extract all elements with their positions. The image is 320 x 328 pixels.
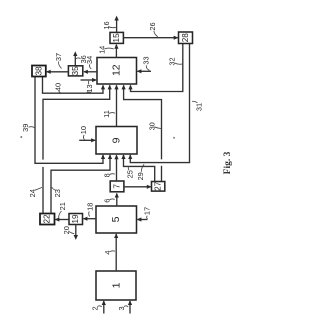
box 38 [32,66,46,77]
svg-text:33: 33 [142,56,151,64]
input stub 17 into box 5 [137,217,148,221]
box 19 [69,214,83,225]
svg-text:37: 37 [54,53,63,61]
svg-text:9: 9 [111,137,123,143]
svg-text:5: 5 [110,216,122,222]
input stub 13 into box 12 [81,78,97,82]
svg-text:1: 1 [110,282,122,288]
stray speck [20,136,22,138]
svg-text:30: 30 [147,122,156,130]
svg-text:19: 19 [71,214,80,224]
box 35 [68,66,82,76]
label 37 [54,53,63,69]
svg-text:14: 14 [97,46,106,54]
svg-text:39: 39 [21,124,30,132]
label 11 [102,110,115,118]
wire 14 from box 12 to box 15 [114,44,118,58]
svg-text:23: 23 [53,189,62,197]
label 34 [85,56,94,69]
label 33 [142,56,151,70]
box 12 [97,58,137,85]
svg-text:10: 10 [79,126,88,134]
wire from box 7 to box 27 [124,185,152,189]
svg-text:25: 25 [125,170,134,178]
label 29 [136,164,145,180]
wire 11 from box 9 to box 12 [114,85,118,127]
wire 21 from box 19 to box 22 [55,217,69,221]
svg-text:3: 3 [117,306,126,310]
label 2 [91,306,102,311]
svg-text:32: 32 [168,57,177,65]
label 14 [97,46,114,54]
svg-text:16: 16 [102,21,111,29]
label 21 [58,202,67,217]
wire 25 from box 9 down to box 27 [121,154,154,181]
svg-text:17: 17 [143,207,152,215]
wire 18 from box 5 to box 19 [83,217,96,221]
label 3 [117,306,128,311]
label 20 [62,226,74,234]
wire 37 from box 35 to box 38 [46,70,68,74]
box 22 [40,214,55,225]
svg-text:7: 7 [112,184,121,189]
wire 4 from box 1 to box 5 [114,233,118,271]
label 10 [79,126,88,140]
label 32 [168,57,183,65]
box 15 [110,32,123,43]
svg-text:35: 35 [71,66,80,76]
label 4 [103,250,115,254]
input stub 10 into box 9 [79,138,96,142]
wire 32 from box 28 down and into box 12 [128,44,182,92]
wire 26 from box 15 to box 28 [123,36,178,40]
label 6 [103,199,115,203]
box 27 [152,181,165,191]
svg-text:12: 12 [111,64,123,76]
wire 40 from box 38 down and into box 12 [43,77,106,94]
label 13 [85,81,94,93]
svg-text:21: 21 [58,202,67,210]
label 23 [52,187,62,197]
label 40 [54,83,63,93]
svg-text:2: 2 [91,306,100,310]
label 30 [147,122,161,130]
box 9 [96,127,137,155]
output stub 20 from box 19 [74,225,78,240]
figure caption Fig. 3 [223,151,233,174]
svg-text:26: 26 [148,22,157,30]
svg-text:11: 11 [102,110,111,118]
output stub 16 from box 15 [114,16,118,33]
svg-text:38: 38 [34,66,43,76]
smudge on wire 40 [86,92,91,94]
label 31 [192,101,203,111]
svg-text:28: 28 [181,33,190,43]
label 26 [148,22,158,36]
wire 23 from box 9 down and to box 22 [51,154,112,213]
label 39 [21,124,35,132]
label 18 [86,203,95,217]
box 28 [179,32,193,44]
wire 29-31 from box 28 down and into box 9 [128,44,189,163]
svg-text:20: 20 [62,226,71,234]
wire 34 from box 35 to box 12 [83,70,97,74]
svg-text:Fig. 3: Fig. 3 [223,151,233,174]
input stub 33 into box 12 [137,69,151,73]
svg-text:31: 31 [194,103,203,111]
label 25 [125,167,134,179]
svg-text:40: 40 [54,83,63,91]
svg-text:27: 27 [154,181,163,191]
svg-text:22: 22 [43,214,52,224]
wire 6 from box 5 to box 7 [115,193,119,206]
output stub 36 from box 35 [73,51,77,66]
label 36 [76,55,88,63]
stray speck [173,137,175,139]
wire 30 from box 12 down to box 27 (with hop) [122,85,162,182]
svg-text:18: 18 [86,203,95,211]
svg-text:13: 13 [85,84,94,92]
wire 24 from box 12 down and to box 22 (with hop) [43,85,112,214]
label 16 [102,21,116,29]
wire 8 from box 7 to box 9 [114,155,118,182]
input stub 3 into box 1 [128,300,132,313]
input stub 2 into box 1 [102,300,106,313]
box 7 [110,181,124,192]
wire 39 from box 38 down and into box 9 [35,77,105,164]
svg-text:15: 15 [112,33,121,43]
svg-text:36: 36 [79,55,88,63]
label 8 [103,173,115,177]
label 17 [143,207,152,219]
label 24 [28,187,42,197]
box 5 [96,206,137,233]
svg-text:24: 24 [28,189,37,197]
box 1 [96,271,136,300]
svg-text:29: 29 [136,172,145,180]
